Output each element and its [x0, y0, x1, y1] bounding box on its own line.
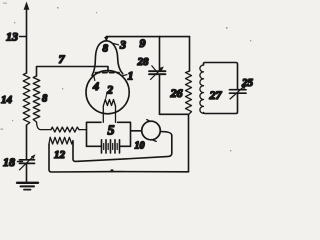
svg-text:10: 10	[135, 141, 145, 152]
svg-text:14: 14	[1, 94, 13, 106]
label 1 with leader	[123, 69, 134, 83]
svg-text:28: 28	[137, 56, 150, 68]
svg-text:1: 1	[128, 69, 134, 83]
variable capacitor 25	[230, 85, 247, 100]
secondary loop top wire	[204, 63, 238, 90]
resistor coil8 to box 5	[37, 122, 87, 132]
variable capacitor 28	[149, 66, 166, 80]
phone return wire	[73, 132, 172, 162]
triode envelope 1	[86, 41, 129, 114]
label 13	[6, 30, 26, 44]
svg-text:7: 7	[59, 52, 66, 66]
label 3 with leader	[114, 38, 127, 52]
svg-text:4: 4	[92, 79, 99, 93]
svg-text:12: 12	[54, 149, 66, 161]
wire cap28 to tank bottom	[159, 74, 161, 114]
wire antenna column	[26, 125, 28, 160]
wire top to capacitor 28	[159, 37, 161, 72]
tank bottom wire	[160, 113, 189, 115]
svg-text:13: 13	[6, 30, 18, 44]
svg-text:18: 18	[3, 155, 15, 169]
svg-text:25: 25	[241, 77, 254, 89]
box 5 local circuit	[87, 122, 131, 146]
svg-text:5: 5	[108, 124, 115, 139]
wire 7 grid lead	[37, 67, 109, 77]
grid 4 dashed electrode	[96, 72, 120, 74]
variable capacitor 18	[20, 154, 36, 170]
wire capacitor 18 to ground	[26, 163, 28, 182]
svg-text:8: 8	[42, 94, 48, 105]
label 4	[92, 76, 99, 94]
phone receiver 10	[131, 120, 160, 142]
inductor 27	[200, 65, 204, 113]
inductor 14	[23, 73, 30, 125]
battery	[87, 140, 131, 153]
svg-text:27: 27	[209, 88, 223, 102]
antenna lead-in wire with arrow	[24, 2, 30, 74]
plate wire 9	[106, 37, 189, 41]
filament 2	[103, 100, 115, 123]
inductor 26 branch	[186, 37, 192, 172]
svg-text:8: 8	[103, 43, 109, 55]
label 18	[3, 155, 23, 169]
scan speckles	[1, 3, 252, 152]
inductor 12	[49, 137, 73, 144]
svg-text:9: 9	[140, 36, 146, 50]
wire coil12 left to bottom rail	[49, 144, 189, 172]
junction dot	[110, 169, 113, 172]
secondary loop bottom wire	[204, 93, 238, 113]
ground	[17, 183, 38, 190]
svg-text:26: 26	[170, 86, 183, 100]
inductor 8	[33, 76, 40, 122]
svg-text:3: 3	[119, 38, 126, 52]
plate connection point	[104, 37, 108, 42]
